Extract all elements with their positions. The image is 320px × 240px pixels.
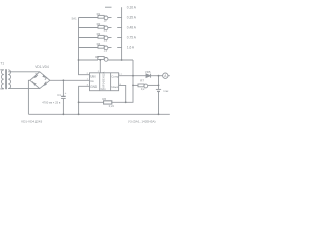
svg-text:VD5: VD5	[145, 70, 151, 74]
svg-text:VD1-VD4: VD1-VD4	[35, 65, 49, 69]
svg-text:R2: R2	[97, 22, 101, 26]
svg-text:4700 мк × 25 в: 4700 мк × 25 в	[42, 100, 61, 104]
svg-text:3,3: 3,3	[104, 39, 108, 43]
svg-text:R6: R6	[102, 97, 106, 101]
svg-text:GND: GND	[90, 85, 98, 89]
svg-text:Uвх: Uвх	[90, 75, 96, 79]
svg-text:0,2: 0,2	[141, 87, 145, 91]
svg-text:0,24: 0,24	[109, 104, 115, 108]
svg-text:У3 (DA1, 142ЕН5А): У3 (DA1, 142ЕН5А)	[128, 120, 156, 124]
svg-text:5,1: 5,1	[104, 29, 108, 33]
svg-text:Comp: Comp	[111, 74, 119, 78]
svg-text:SA1: SA1	[72, 17, 78, 21]
svg-text:0,35 A: 0,35 A	[127, 16, 137, 20]
svg-text:R3: R3	[97, 32, 101, 36]
svg-text:VD1-VD4 Д243: VD1-VD4 Д243	[21, 120, 42, 124]
svg-text:10: 10	[104, 19, 107, 23]
svg-text:R4: R4	[97, 42, 101, 46]
svg-text:R7: R7	[140, 78, 144, 82]
svg-text:Uв: Uв	[90, 79, 94, 83]
svg-text:A: A	[164, 74, 167, 78]
svg-text:1 мк: 1 мк	[163, 89, 169, 93]
svg-text:R1: R1	[97, 12, 101, 16]
svg-text:0,16 A: 0,16 A	[127, 6, 137, 10]
svg-text:R5: R5	[95, 55, 99, 59]
svg-text:0,75 A: 0,75 A	[127, 36, 137, 40]
svg-text:0,48 A: 0,48 A	[127, 26, 137, 30]
svg-text:1,6 A: 1,6 A	[127, 46, 135, 50]
svg-text:1,5: 1,5	[104, 49, 108, 53]
svg-text:Uвых: Uвых	[111, 85, 119, 89]
svg-text:КР142ЕН12А: КР142ЕН12А	[102, 72, 106, 88]
svg-text:C1: C1	[57, 93, 61, 97]
svg-text:T1: T1	[0, 62, 4, 66]
svg-text:+: +	[65, 91, 67, 95]
